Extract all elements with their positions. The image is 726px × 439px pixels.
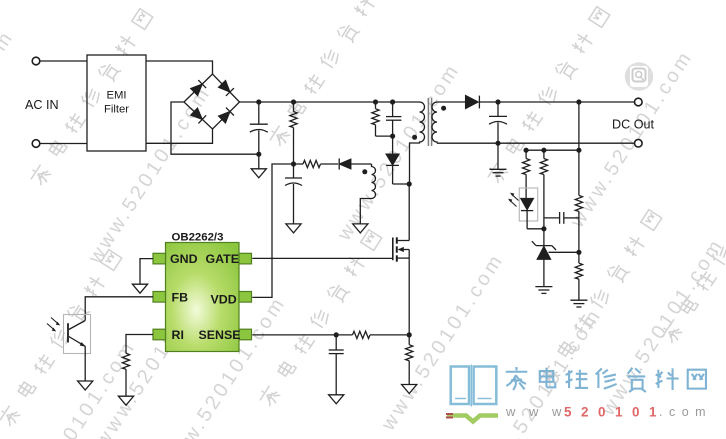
pin RI	[153, 329, 166, 340]
pin VDD	[239, 292, 252, 303]
wire emitter to ground	[84, 346, 86, 381]
MOSFET body arrow	[399, 249, 410, 251]
MOSFET Q1 drain wire	[408, 184, 410, 241]
logo www line	[505, 404, 712, 420]
opto U2 led box	[519, 188, 537, 221]
wire bridge left to primary ground rail	[171, 102, 259, 154]
node C4 top	[495, 99, 500, 104]
bridge diode D-c (top-right)	[218, 80, 234, 96]
phototransistor Q2	[67, 323, 69, 342]
ground (IC GND)	[132, 284, 147, 293]
bridge diode D-a (left-top)	[190, 80, 206, 96]
wire fb divider vertical from + rail	[578, 102, 580, 195]
node rail snubber R	[373, 99, 378, 104]
zener D6	[543, 229, 545, 246]
wire aux to ground	[360, 199, 371, 224]
logo red tick	[446, 414, 453, 418]
node C4 bottom	[495, 141, 500, 146]
diode D2 vdd rectifier	[338, 158, 340, 169]
node rail startup R	[291, 99, 296, 104]
wire AC top to EMI	[40, 60, 87, 62]
MOSFET Q1 channel and gate	[392, 238, 394, 261]
DC out terminal +	[635, 98, 643, 106]
photo arrows into Q2	[47, 318, 60, 332]
bridge diode D-b (left-bottom)	[190, 108, 206, 124]
node sense filter	[334, 332, 339, 337]
watermark cn stripe 5	[537, 208, 664, 389]
ground (bulk cap)	[258, 154, 260, 169]
svg-text:GATE: GATE	[206, 252, 240, 266]
resistor R10 ri	[122, 353, 129, 369]
node drain top	[407, 181, 412, 186]
wire output - rail	[437, 142, 634, 144]
node J vdd	[291, 161, 296, 166]
AC input terminal top	[32, 57, 40, 65]
svg-text:GND: GND	[170, 252, 198, 266]
watermark cn stripe 2b	[267, 0, 394, 149]
opto U2 transistor box	[64, 315, 91, 354]
earth ground (zener)	[535, 287, 552, 294]
LED D5 of optocoupler	[521, 199, 533, 210]
svg-text:EMI: EMI	[106, 90, 126, 102]
watermark cn stripe 4	[0, 248, 124, 429]
wire zener to divider tap	[549, 251, 579, 253]
svg-text:www.520101.com: www.520101.com	[377, 249, 509, 435]
resistor R9 current sense	[408, 335, 410, 345]
wire secondary top to D4	[437, 101, 466, 103]
resistor R8 sense filter	[353, 331, 371, 338]
capacitor C5 compensation	[544, 217, 560, 219]
resistor R6 led feed	[525, 150, 527, 158]
EMI filter box	[87, 55, 146, 151]
resistor R5 lower divider	[578, 252, 580, 263]
op IC U1 OB2262/3 body	[153, 243, 252, 352]
node R6 top	[524, 148, 529, 153]
logo green swoosh	[447, 416, 498, 422]
wire FB pin to opto collector	[85, 297, 153, 321]
camera watermark icon top right	[625, 62, 653, 90]
wire output + rail	[479, 101, 634, 103]
DC out terminal -	[635, 139, 643, 147]
logo book icon	[451, 365, 497, 407]
pin FB	[153, 292, 166, 303]
LED emission arrows	[508, 193, 519, 207]
ground (opto emitter)	[78, 381, 93, 390]
AC input terminal bottom	[32, 140, 40, 148]
wire RI pin to resistor	[126, 335, 153, 354]
ground (C6)	[329, 395, 344, 404]
svg-text:FB: FB	[172, 290, 189, 304]
svg-text:www.520101.com: www.520101.com	[333, 59, 465, 245]
diode D4 output rectifier	[466, 96, 478, 109]
node aux phase dot	[362, 169, 367, 174]
svg-text:.com: .com	[659, 405, 712, 419]
TEXT LAYER	[25, 90, 654, 343]
wire AC bottom to EMI	[40, 143, 87, 145]
resistor R7 zener feed	[543, 150, 545, 158]
node secondary phase dot	[441, 106, 446, 111]
svg-text:Filter: Filter	[104, 103, 129, 115]
earth ground (R5)	[570, 300, 587, 307]
node R7 top	[541, 148, 546, 153]
node rail bulk cap	[256, 99, 261, 104]
node source sense	[407, 332, 412, 337]
transformer T1 secondary winding	[432, 102, 437, 143]
resistor R3 snubber	[375, 102, 377, 109]
capacitor C6 sense filter	[335, 335, 337, 350]
node bulk cap bottom	[256, 152, 261, 157]
node divider tap	[576, 250, 581, 255]
earth ground (C4)	[497, 143, 499, 169]
svg-text:OB2262/3: OB2262/3	[172, 232, 224, 244]
capacitor C1 bulk	[258, 102, 260, 124]
resistor R2 vdd series	[294, 163, 304, 165]
pin GATE	[239, 253, 252, 264]
wire SENSE pin line	[252, 334, 352, 336]
watermark cn stripe 1	[28, 7, 155, 188]
wire fb top line	[526, 149, 579, 151]
wire GATE pin to gate	[252, 257, 392, 259]
resistor R4 upper divider	[575, 195, 582, 211]
transformer core	[427, 98, 429, 146]
svg-text:DC Out: DC Out	[612, 117, 654, 131]
node zener top	[541, 226, 546, 231]
bridge rectifier BR1 diamond	[184, 74, 240, 129]
logo text pseudo hanzi	[506, 367, 706, 392]
node primary phase dot	[412, 135, 417, 140]
watermark cn stripe 2	[485, 5, 612, 186]
aux winding L1	[372, 164, 376, 199]
svg-text:AC IN: AC IN	[25, 98, 59, 112]
watermark cn stripe 6	[659, 165, 726, 346]
node fb top rail	[576, 148, 581, 153]
svg-text:SENSE: SENSE	[199, 328, 241, 342]
node fb divider top	[576, 99, 581, 104]
node rail snubber C	[390, 99, 395, 104]
CIRCUIT LAYER	[32, 55, 642, 405]
svg-text:www.520101.com: www.520101.com	[0, 26, 19, 212]
ground (aux winding)	[353, 224, 368, 233]
ground (C2)	[286, 224, 301, 233]
wire led cathode to zener node	[527, 228, 544, 230]
svg-text:www.520101.com: www.520101.com	[597, 234, 726, 420]
pin SENSE	[239, 329, 252, 340]
svg-text:RI: RI	[172, 328, 184, 342]
wire J to VDD pin	[252, 164, 293, 297]
wire EMI top to bridge top	[146, 61, 213, 74]
MOSFET source	[397, 257, 409, 259]
LOGO LAYER bottom right	[446, 365, 712, 422]
bridge diode D-d (bottom-right)	[218, 108, 234, 124]
ground (R10)	[118, 396, 133, 405]
capacitor C3 snubber	[392, 102, 394, 117]
watermark cn stripe 3	[257, 228, 384, 409]
pin GND	[153, 253, 166, 264]
svg-text:VDD: VDD	[211, 293, 237, 307]
wire bridge right to main rail / HV rail	[240, 101, 416, 103]
wire GND pin to ground	[140, 259, 153, 285]
capacitor C2 vdd	[293, 164, 295, 178]
svg-text:w w w: w w w	[505, 404, 566, 419]
resistor R1 startup	[293, 102, 295, 112]
transformer T1 primary winding	[410, 102, 425, 184]
capacitor C4 output	[497, 102, 499, 116]
diode D3 clamp	[392, 136, 394, 154]
svg-text:520101: 520101	[564, 405, 666, 420]
node snubber bottom	[390, 134, 395, 139]
ground (R9)	[402, 385, 417, 394]
wire EMI bottom to bridge bottom	[146, 129, 213, 143]
